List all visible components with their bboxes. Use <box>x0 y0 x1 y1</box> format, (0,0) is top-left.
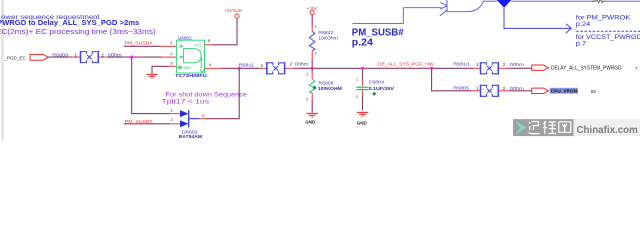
svg-text:Chinafix.com: Chinafix.com <box>577 124 638 136</box>
svg-text:TC7SH08FU: TC7SH08FU <box>175 73 207 78</box>
wire R6810 to port <box>508 67 532 69</box>
svg-text:_PGD_EC: _PGD_EC <box>3 56 26 61</box>
svg-text:EC(2ms)+ EC processing time (3: EC(2ms)+ EC processing time (3ms~33ms) <box>0 29 156 36</box>
svg-text:2: 2 <box>356 95 358 99</box>
capacitor C6804 <box>356 68 394 110</box>
wire PM_SUSB# to D6802 pin 2 <box>124 123 170 125</box>
watermark <box>513 119 640 136</box>
junction C6804 <box>361 67 364 70</box>
wire gate output to diamond <box>483 0 497 2</box>
resistor R6805 <box>453 85 524 97</box>
AND gate U6802 <box>170 35 212 78</box>
wire diamond down to PM_PWROK arrow <box>504 8 571 33</box>
svg-text:80: 80 <box>591 89 597 94</box>
svg-text:PWRGD to Delay_ALL_SYS_PGD >2m: PWRGD to Delay_ALL_SYS_PGD >2ms <box>0 20 139 27</box>
resistor (top right, partial) <box>592 0 605 3</box>
svg-text:R6805: R6805 <box>453 85 469 90</box>
svg-text:C6804: C6804 <box>369 80 385 85</box>
svg-text:U6802: U6802 <box>178 35 193 40</box>
svg-text:100KOHM: 100KOHM <box>318 86 342 91</box>
ground below R6808 <box>305 113 318 124</box>
junction R6805 branch <box>430 67 433 70</box>
wire R6811 to right <box>294 67 474 69</box>
svg-text:1: 1 <box>356 77 358 81</box>
ground at U6802 pin 3 <box>146 74 157 78</box>
junction R6842/R6808 <box>311 67 314 70</box>
junction diode branch <box>238 67 241 70</box>
wire port to R6809 <box>48 56 72 58</box>
resistor R6809 <box>52 51 122 63</box>
wire U6802 pin 3 to ground <box>169 65 177 67</box>
resistor R6810 <box>453 61 524 74</box>
svg-text:R6842: R6842 <box>318 30 334 35</box>
wire U6802 pin 5 to +3VSUS <box>205 44 214 46</box>
svg-text:00hm: 00hm <box>295 62 309 67</box>
svg-text:1: 1 <box>315 25 317 29</box>
wire junction down to D6802 pin 1 <box>132 57 170 114</box>
svg-text:VCC: VCC <box>194 43 202 47</box>
svg-text:2: 2 <box>306 97 308 101</box>
wire down to R6805 row <box>432 68 474 91</box>
separator dashed line <box>576 30 640 32</box>
svg-text:R6810: R6810 <box>453 61 469 66</box>
svg-text:BAT54AW: BAT54AW <box>179 134 203 139</box>
junction diamond <box>497 0 512 8</box>
svg-text:DELAY_ALL_SYSTEM_PWRGD: DELAY_ALL_SYSTEM_PWRGD <box>551 65 622 71</box>
power +3VSUS <box>224 8 242 18</box>
svg-text:CPU_VRON: CPU_VRON <box>551 89 578 94</box>
wire U6802 pin 4 output <box>205 67 223 69</box>
svg-text:p.24: p.24 <box>576 21 591 28</box>
junction at R6809 output <box>130 56 133 59</box>
wire PM_SUSB# to U6802 pin 1 <box>124 45 160 47</box>
svg-text:10KOhm: 10KOhm <box>318 36 338 41</box>
wire diamond to right edge <box>511 0 595 2</box>
svg-text:1: 1 <box>306 72 308 76</box>
ground below C6804 <box>357 112 369 125</box>
wire R6809 to U6802 pin 2 <box>108 56 163 58</box>
svg-text:DE_ALL_SYS_PGD_HW: DE_ALL_SYS_PGD_HW <box>378 61 434 67</box>
AND gate (top, partially visible) <box>440 0 484 16</box>
svg-text:p.7: p.7 <box>576 41 587 48</box>
svg-text:GND: GND <box>182 66 191 70</box>
wire D6802 pin 3 up to output node <box>206 68 240 118</box>
svg-text:R6808: R6808 <box>318 81 334 86</box>
svg-text:7: 7 <box>635 66 638 71</box>
svg-text:GND: GND <box>305 120 316 125</box>
port ALL_SYS_PGD_EC <box>3 54 48 60</box>
power +3V <box>306 6 318 15</box>
svg-text:R6809: R6809 <box>52 52 68 57</box>
resistor R6808 <box>306 68 342 112</box>
resistor R6811 <box>239 62 309 75</box>
svg-text:2: 2 <box>315 52 317 56</box>
resistor R6842 <box>309 15 338 69</box>
diode D6802 <box>171 107 206 138</box>
svg-text:GND: GND <box>357 120 368 125</box>
off-page connector PM_SUSB# p.24 <box>352 8 442 49</box>
port DELAY_ALL_SYSTEM_PWRGD <box>532 65 639 71</box>
port CPU_VRON <box>532 88 597 94</box>
svg-text:0.1UF/25V: 0.1UF/25V <box>369 86 395 91</box>
svg-text:Tplt17 < 1us: Tplt17 < 1us <box>162 99 210 106</box>
svg-text:+3VSUS: +3VSUS <box>224 8 242 13</box>
svg-text:p.24: p.24 <box>352 36 373 48</box>
svg-text:R6811: R6811 <box>239 63 255 68</box>
wire R6805 to port <box>508 90 532 92</box>
svg-text:00hm: 00hm <box>510 62 524 67</box>
